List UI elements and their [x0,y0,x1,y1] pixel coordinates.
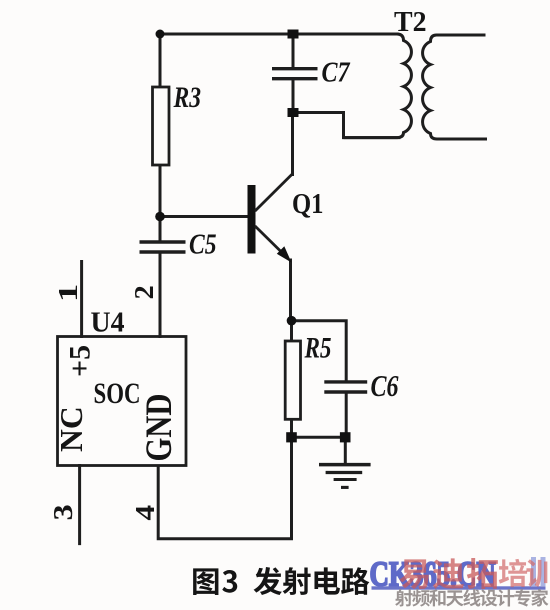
transistor Q1 collector diagonal [255,174,293,212]
resistor R5 [285,341,300,419]
transistor Q1 base bar [248,185,256,254]
junction node R5 bottom [286,432,297,442]
watermark light blue bars [531,557,536,586]
svg-text:C6: C6 [371,368,399,403]
resistor R3 [153,87,170,165]
wire R5 bottom stub [290,419,293,437]
wire R5 top stub [290,321,293,341]
wire bottom node [292,436,346,439]
capacitor C6 plates [324,382,367,392]
junction node base / C5 [155,212,165,222]
junction node C6 / ground [340,432,351,442]
transistor Q1 emitter diagonal with arrow [255,226,292,263]
svg-text:Q1: Q1 [292,189,324,220]
wire C5 to pin2 of U4 [159,252,162,337]
svg-text:3: 3 [48,504,78,520]
capacitor C5 plates [140,242,186,252]
junction node top rail / C7 [288,30,299,39]
transformer T2 primary winding [344,34,412,138]
junction node emitter / R5 [287,316,297,326]
wire R3 top stub [159,34,162,87]
capacitor C7 plates [272,69,318,79]
svg-text:SOC: SOC [94,377,141,410]
svg-text:NC: NC [54,406,89,452]
svg-text:+5: +5 [64,345,97,377]
wire step to transformer primary bottom [293,113,399,138]
wire C6 bottom stub [345,392,348,437]
svg-text:C5: C5 [189,229,217,261]
svg-text:R5: R5 [304,332,332,365]
svg-text:GND: GND [139,394,180,462]
wire top rail [160,33,397,36]
transformer T2 secondary winding [423,35,487,139]
wire emitter node to C6 top [292,321,347,382]
wire base [160,215,248,218]
wire R5 node to GND pin route [158,437,291,538]
ground [319,465,371,488]
svg-text:C7: C7 [322,57,351,89]
watermark underline [372,586,546,589]
wire C7 bottom stub [292,79,295,113]
junction node top rail / R3 [156,30,165,39]
wire pin1 [80,262,83,337]
wire collector vertical [291,113,294,175]
svg-text:2: 2 [129,285,159,299]
svg-text:T2: T2 [394,6,427,38]
caption 图3 发射电路 [193,567,369,595]
wire R3 bottom to base node [159,165,162,217]
watermark red 易迪拓培训 [399,558,550,589]
wire emitter vertical [289,260,292,321]
svg-text:U4: U4 [91,307,125,339]
IC U4 SOC box [58,337,187,466]
watermark gray 射频和天线设计专家 [395,589,548,607]
svg-text:4: 4 [131,505,161,521]
wire pin3 [78,466,81,544]
wire base node to C5 [159,217,162,242]
junction node C7 / collector [288,108,299,117]
wire ground stub [344,437,347,463]
svg-text:R3: R3 [173,81,201,114]
wire C7 top stub [292,34,295,68]
svg-text:1: 1 [53,284,83,302]
wire secondary top lead [437,34,486,37]
